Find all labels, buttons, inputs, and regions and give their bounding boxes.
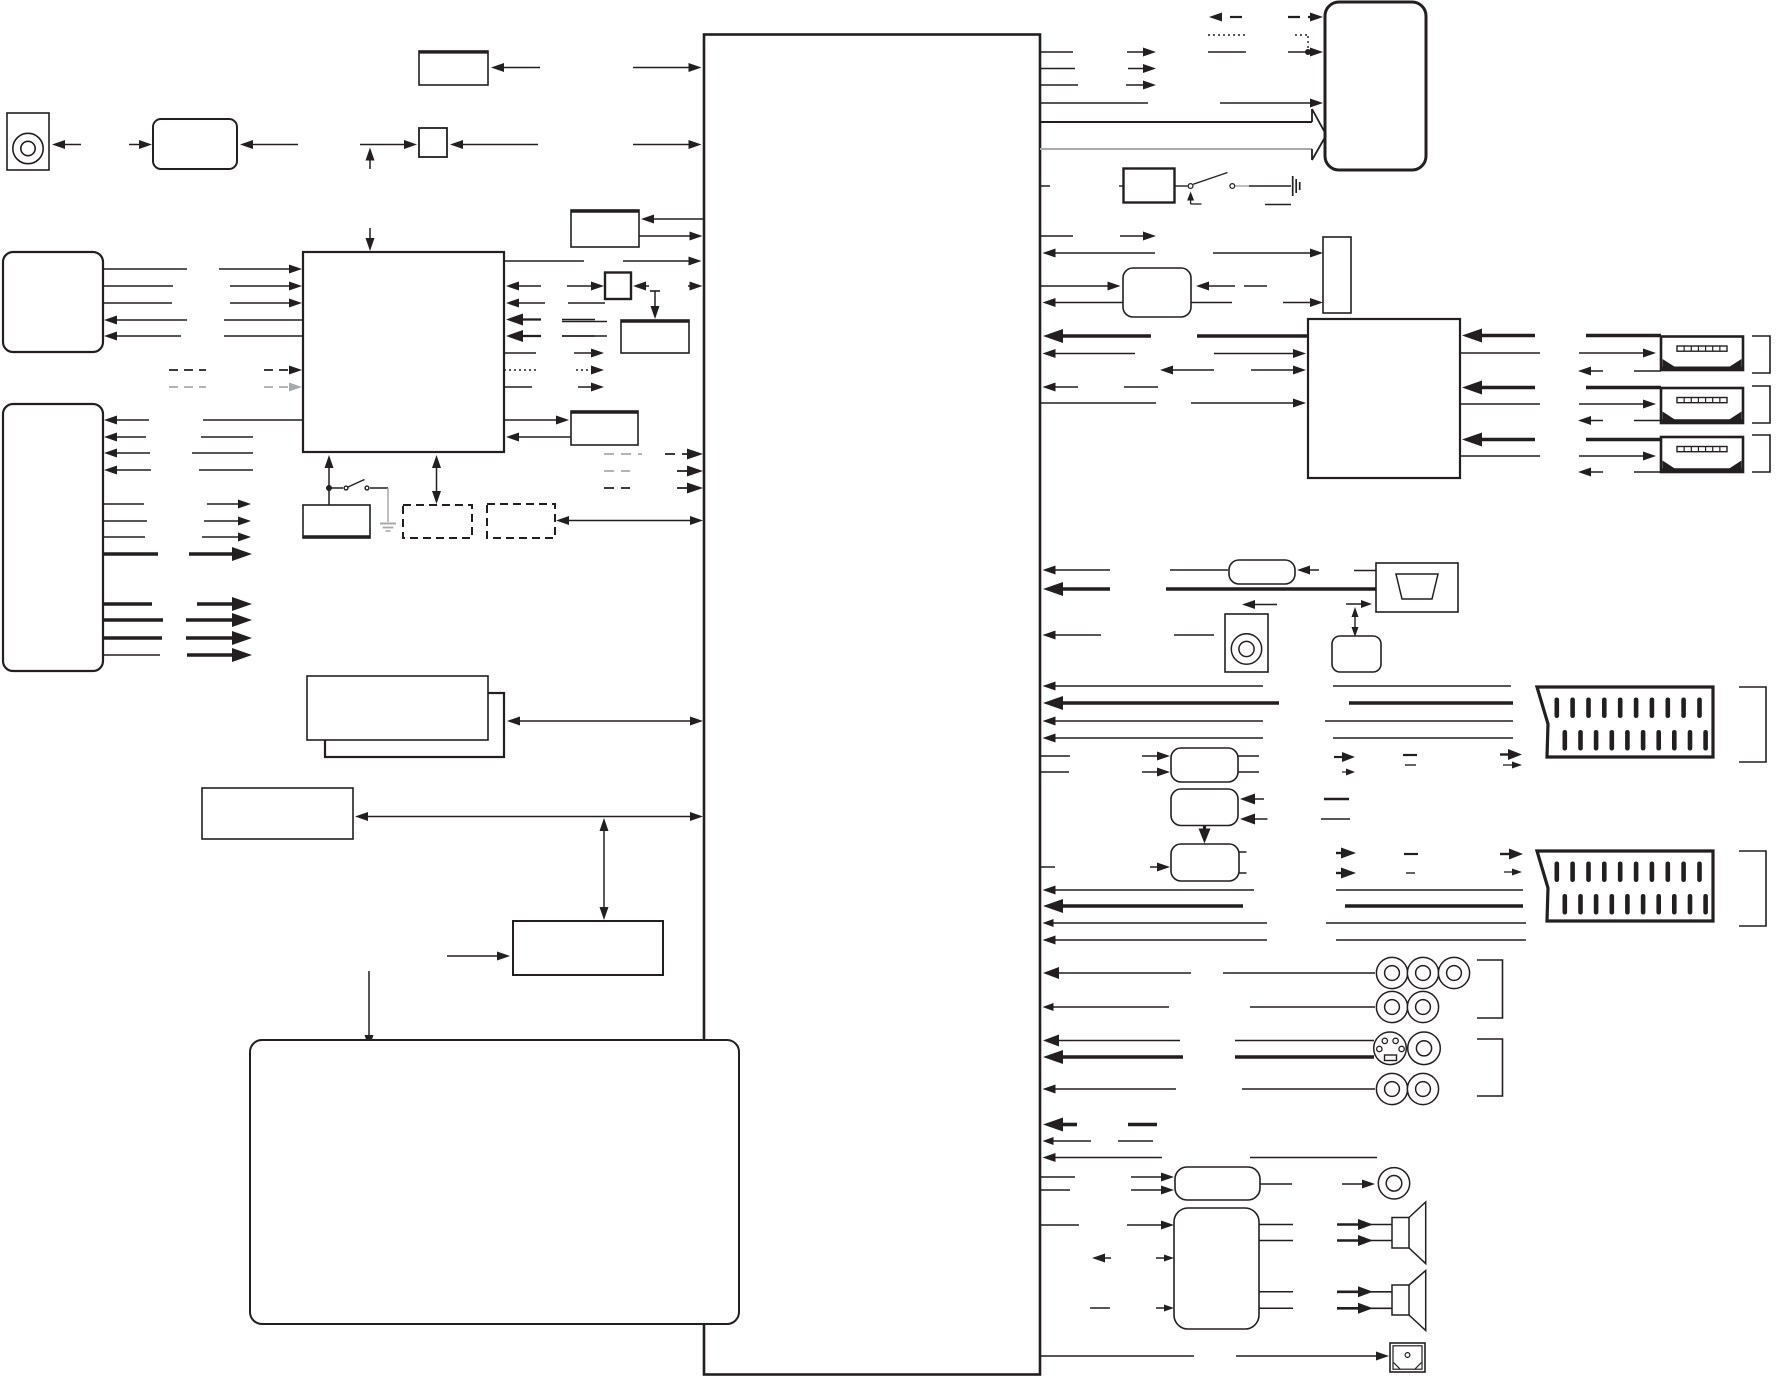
IF filter block <box>153 119 237 169</box>
sync block AD1 <box>1332 636 1381 672</box>
LVDS wide bus arrow to panel <box>1040 121 1312 123</box>
S-video wire y1040 <box>1043 1035 1059 1047</box>
headphone amp pill AI1 <box>1175 1167 1260 1200</box>
thick stub wire y1124 <box>1043 1118 1063 1132</box>
wire y437 from reset block to U1 <box>506 433 519 442</box>
speaker right <box>1392 1285 1409 1315</box>
power supply unit block (big rounded) <box>250 1040 739 1324</box>
tuner-video processor IC U1 <box>303 252 504 452</box>
SCART2 thick wire y906 <box>1043 899 1063 913</box>
wire stub y353 from U1 <box>504 352 536 354</box>
flash memory block S1 (front) <box>307 676 488 740</box>
tiny stub left of X1 <box>1119 185 1124 187</box>
subwoofer box <box>1390 1343 1425 1372</box>
SAW filter square <box>419 128 447 157</box>
dashed option block R2 <box>487 504 555 538</box>
vertical link arrow between M2 area and N1 <box>650 290 660 292</box>
wire AI1 to headphone jack <box>1260 1183 1292 1185</box>
thick wire row y604 out of side AV <box>103 602 152 605</box>
wire y253 keypad block to main IC <box>1043 249 1056 258</box>
HDMI input 1 DDC wire <box>1460 352 1540 354</box>
RCA antenna-in jack J1 <box>7 113 49 170</box>
thick wire row y554 out of side AV <box>103 552 158 555</box>
side AV connector block (left, tall) <box>3 404 103 671</box>
composite video RCA jack AE1 <box>1225 614 1268 672</box>
component Y wire y973 <box>1043 967 1059 979</box>
arrow into SAW filter right side <box>455 144 538 146</box>
thick wire row y638 out of side AV <box>103 636 162 639</box>
wire y403 main IC to HDMI switch <box>1040 402 1156 404</box>
stub from main IC y186 <box>1040 185 1050 187</box>
audio in pill AG1 <box>1171 789 1238 826</box>
SCART connector CN5 <box>1537 851 1713 921</box>
front AV connector block (left top) <box>3 252 103 352</box>
wire down to power supply block <box>368 971 370 1042</box>
ground symbol under switch <box>380 523 396 525</box>
HDMI connector CN2 <box>1661 388 1743 423</box>
dotted branch line y35 <box>1208 34 1246 36</box>
arrow into SAW filter from left <box>360 144 411 146</box>
wire y635 RCA to main IC <box>1043 631 1056 640</box>
wires out of AF1 <box>1238 755 1259 757</box>
SCART2 wire y923 <box>1043 919 1054 927</box>
AV audio wire y1089 <box>1043 1085 1056 1094</box>
wire row y320 from U1 to front AV <box>104 316 117 325</box>
audio DSP block near main IC <box>571 210 639 247</box>
arrow into IF filter from left <box>129 144 146 146</box>
SCART1 thick wire y703 <box>1043 696 1063 710</box>
wire row y537 out of side AV <box>103 536 145 538</box>
flash memory block S2 (behind) <box>325 693 504 757</box>
CRT/monitor block AC1 <box>1376 563 1458 612</box>
wire row y303 from front AV to U1 <box>103 302 172 304</box>
headphone jack <box>1378 1168 1409 1199</box>
wire row y420 from U1 to side AV <box>104 416 117 425</box>
dotted wire y370 from U1 <box>504 369 537 371</box>
arrow into IF filter right side <box>245 144 298 146</box>
inverter block X1 <box>1124 169 1175 203</box>
wire stub y387 from U1 <box>504 386 532 388</box>
S-video mini-DIN connector <box>1374 1032 1407 1065</box>
stub wire y1157 <box>1043 1153 1056 1162</box>
wire arrow into J1 <box>57 144 81 146</box>
main system-on-chip IC U3 <box>704 35 1040 1375</box>
arrow into CRT left side <box>1346 603 1366 605</box>
wires into AI1 <box>1040 1176 1075 1178</box>
LCD panel block (top right) <box>1325 2 1426 170</box>
wire row y336 from U1 to front AV <box>104 332 117 341</box>
bidirectional link CRT to AD1 <box>1354 611 1356 633</box>
arrow from main IC into audio DSP right side <box>647 218 704 220</box>
wire y570 CRT to AB1 to main IC <box>1043 566 1056 575</box>
wire into AJ1 y1225 <box>1040 1224 1079 1226</box>
SAW filter square M2 <box>605 273 631 300</box>
vertical branch arrow up to SAW input wire <box>369 152 371 170</box>
DDC line y353 bidirectional <box>1043 349 1056 358</box>
chassis bracket of CN3 <box>1752 435 1770 472</box>
HDMI input 2 DDC wire <box>1460 403 1540 405</box>
arrows toward SCART2 audio <box>1336 852 1348 854</box>
SCART1 wire y686 <box>1043 682 1056 691</box>
vertical I2C branch to reset IC <box>603 822 605 915</box>
arrow into M2 right side and wire to main IC y286 <box>633 282 646 291</box>
wire stub y85 from main IC <box>1040 84 1078 86</box>
wire row y655 out of side AV <box>103 654 160 656</box>
SCART connector CN4 <box>1537 687 1713 757</box>
chassis ground symbol <box>1292 176 1294 196</box>
wire row y269 from front AV to U1 <box>103 268 187 270</box>
demodulator block <box>419 51 488 85</box>
HDMI input 2 TMDS thick wire <box>1462 381 1482 395</box>
HDMI input 1 TMDS thick wire <box>1462 329 1482 343</box>
wire row y453 to side AV <box>104 449 117 458</box>
bidirectional I2C bus T1 to main IC <box>359 816 697 818</box>
arrow stubs toward SCART1 audio <box>1334 756 1348 758</box>
CEC line y370 <box>1160 366 1173 375</box>
SCART2 wire y890 <box>1043 886 1056 895</box>
wire row y521 out of side AV <box>103 520 147 522</box>
arrow toward video RCA jack y604 <box>1242 600 1255 609</box>
gray dashed bus y454 to main IC <box>604 453 642 455</box>
gray dashed bus y471 to main IC <box>604 470 630 472</box>
wires into AH1 <box>1040 866 1055 868</box>
AV RCA jacks row4 <box>1376 1073 1407 1104</box>
wire y302 IR block to main IC <box>1043 298 1056 307</box>
speaker wires from AJ1 <box>1259 1224 1293 1226</box>
wire row y437 to side AV <box>104 433 117 442</box>
wire from main IC to SAW row <box>633 144 695 146</box>
gray dashed control line into U1 y387 <box>169 386 206 388</box>
HDMI input 3 return wire <box>1578 468 1591 477</box>
chassis bracket of AV2 group <box>1477 1039 1503 1096</box>
dashed option block R1 <box>403 505 472 538</box>
wire y261 U1 to main IC <box>504 260 584 262</box>
audio out pill AH1 <box>1171 844 1239 881</box>
wire y286 main IC to IR block <box>1040 285 1114 287</box>
dashed control line into U1 y370 <box>169 369 206 371</box>
thick TMDS bus HDMI switch to main IC <box>1043 329 1063 343</box>
audio buffer pill AF1 <box>1171 748 1238 782</box>
bidirectional vertical bus U1 to R1 <box>436 460 438 499</box>
SCART2 wire y940 <box>1043 936 1056 945</box>
HDMI input 1 return wire <box>1578 367 1591 376</box>
arrow into IR block right side <box>1196 282 1209 291</box>
SCART1 wire y738 <box>1043 734 1056 743</box>
wire audio DSP to main IC y236 <box>639 235 696 237</box>
wire y420 from U1 to reset block <box>504 419 564 421</box>
thick video wire y589 CRT to main IC <box>1043 582 1063 596</box>
power select switch under U1 <box>328 488 330 505</box>
wire y286 main area to U1 with IF square <box>506 282 519 291</box>
arrow into U2 left side <box>447 955 504 957</box>
wire stubs left of N1 <box>562 321 607 323</box>
reset block P1 <box>571 411 638 445</box>
equal-sign stubs y854-873 <box>1404 853 1418 855</box>
power switch to backlight <box>1175 185 1188 187</box>
dashed line from panel to main IC y17 <box>1209 13 1222 22</box>
mute arrow y1258 <box>1092 1254 1105 1263</box>
wire y103 main IC to panel <box>1040 102 1148 104</box>
wire row y470 to side AV <box>104 466 117 475</box>
chassis bracket of CN4 <box>1739 687 1766 762</box>
HDMI connector CN1 <box>1661 337 1743 371</box>
subwoofer wire y1356 <box>1040 1355 1194 1357</box>
hotplug stub y387 <box>1043 383 1056 392</box>
wire y303 into U1 <box>506 299 519 308</box>
chassis bracket of CN2 <box>1752 386 1770 423</box>
dashed bus y488 to main IC <box>604 487 630 489</box>
short wire stub near ground <box>1265 204 1291 206</box>
S-video audio RCA jack <box>1408 1032 1441 1065</box>
HDMI switch IC AA1 <box>1308 319 1460 478</box>
component RCA jacks row2 <box>1376 991 1407 1022</box>
equal-sign stubs y755-765 <box>1403 754 1417 756</box>
standby supply block Q1 <box>303 505 370 538</box>
HDMI connector CN3 <box>1661 437 1743 472</box>
arrows into AG1 right side <box>1240 794 1255 805</box>
arrows into SCART2 upper edge <box>1500 853 1515 855</box>
bidirectional bus R2 to main IC <box>562 520 697 522</box>
clock block N1 beside U1 <box>621 320 689 353</box>
arrow into demodulator right side <box>496 67 540 69</box>
arrow up under switch contact <box>1190 198 1192 204</box>
S-video thick wire y1057 <box>1043 1050 1063 1064</box>
wires out of AH1 <box>1239 851 1247 853</box>
component audio wire y1007 <box>1043 1003 1054 1011</box>
EEPROM block T1 <box>202 788 353 839</box>
wire row y504 out of side AV <box>103 503 144 505</box>
HDMI input 3 TMDS thick wire <box>1462 433 1482 447</box>
wire row y286 from front AV to U1 <box>103 285 173 287</box>
wire stub y68 from main IC <box>1040 68 1075 70</box>
reset IC block U2 <box>513 921 663 975</box>
thick arrow down AG1 to AH1 <box>1203 826 1206 837</box>
keypad connector block Y1 <box>1323 237 1351 313</box>
thick wire row y620 out of side AV <box>103 618 163 621</box>
audio power amp pill AJ1 <box>1174 1208 1259 1329</box>
stub y1308 into AJ1 <box>1090 1307 1110 1309</box>
thick wire y336 into U1 <box>506 330 523 342</box>
stub wire y1141 <box>1043 1137 1054 1145</box>
HDMI input 3 DDC wire <box>1460 455 1540 457</box>
component RCA jacks row1 <box>1376 957 1407 988</box>
speaker left <box>1392 1218 1409 1249</box>
wires into AF1 <box>1040 755 1070 757</box>
wire y52 main IC to panel <box>1040 51 1073 53</box>
chassis bracket of CN1 <box>1752 336 1770 373</box>
arrows into SCART1 lower edge <box>1500 753 1515 755</box>
SCART1 wire y721 <box>1043 717 1056 726</box>
video buffer pill AB1 <box>1229 560 1295 584</box>
bidirectional memory bus to main IC <box>511 720 697 722</box>
wire stub y236 from main IC <box>1040 235 1073 237</box>
HDMI input 2 return wire <box>1578 416 1591 425</box>
thick wire y319 into U1 <box>506 314 523 326</box>
arrow down into U1 top <box>369 228 371 246</box>
wire from main IC to demodulator row <box>633 67 695 69</box>
chassis bracket of component row1 <box>1477 960 1503 1018</box>
IR receiver block Z1 <box>1123 268 1191 317</box>
chassis bracket of CN5 <box>1739 851 1766 926</box>
